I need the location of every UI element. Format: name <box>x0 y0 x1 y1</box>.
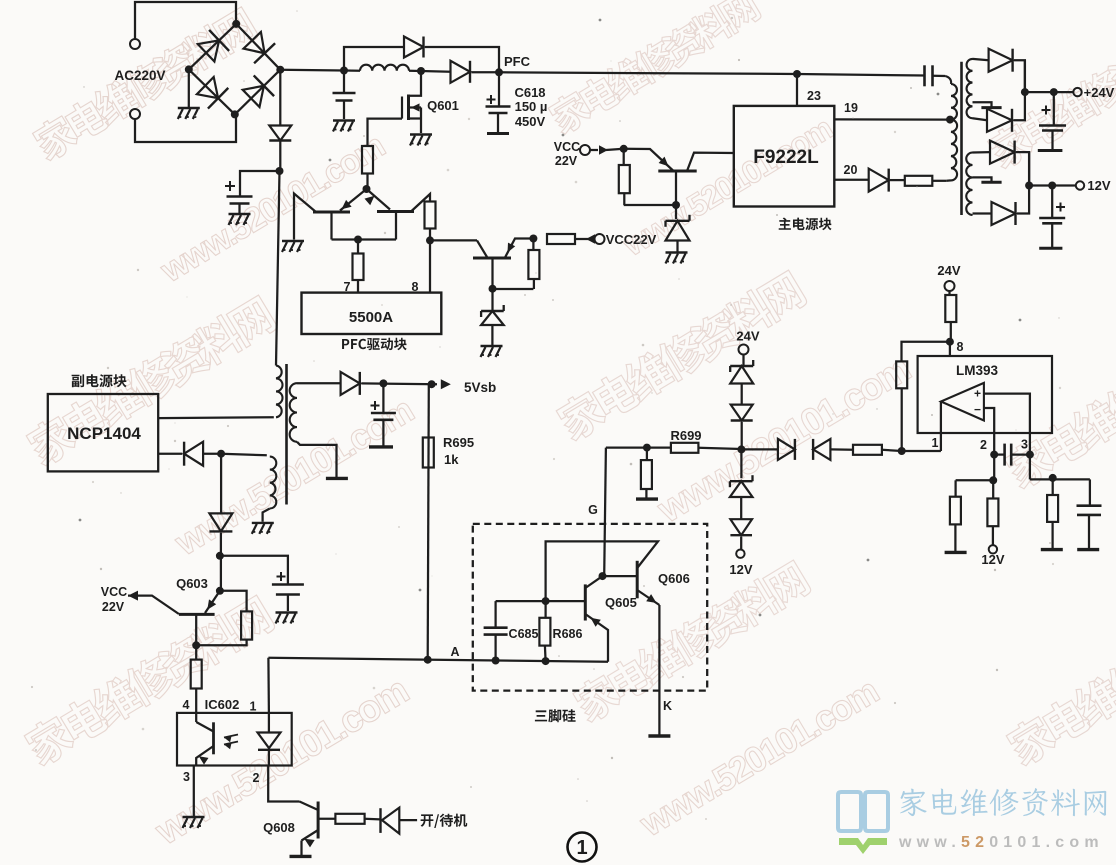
svg-text:www.520101.com: www.520101.com <box>167 389 419 563</box>
svg-text:Q601: Q601 <box>427 98 459 113</box>
svg-text:Q608: Q608 <box>263 820 295 835</box>
svg-text:1: 1 <box>250 700 257 714</box>
svg-text:4: 4 <box>183 698 190 712</box>
svg-text:12V: 12V <box>1087 178 1110 193</box>
svg-text:5500A: 5500A <box>349 309 393 326</box>
svg-text:12V: 12V <box>981 552 1004 567</box>
svg-text:+: + <box>974 387 981 401</box>
svg-text:3: 3 <box>1021 438 1028 452</box>
svg-text:8: 8 <box>957 340 964 354</box>
svg-text:G: G <box>588 503 598 517</box>
svg-text:VCC: VCC <box>101 585 127 599</box>
svg-text:www.520101.com: www.520101.com <box>154 127 391 290</box>
svg-text:12V: 12V <box>729 562 752 577</box>
svg-text:19: 19 <box>844 101 858 115</box>
svg-text:7: 7 <box>344 280 351 294</box>
svg-text:Q605: Q605 <box>605 595 637 610</box>
svg-text:1k: 1k <box>444 452 459 467</box>
svg-text:LM393: LM393 <box>956 363 999 378</box>
svg-text:1: 1 <box>576 837 587 859</box>
svg-text:K: K <box>663 699 672 713</box>
svg-text:A: A <box>450 645 459 659</box>
svg-text:3: 3 <box>183 770 190 784</box>
svg-text:22V: 22V <box>555 154 578 168</box>
svg-text:5Vsb: 5Vsb <box>464 380 496 395</box>
svg-text:24V: 24V <box>937 263 960 278</box>
svg-text:C618: C618 <box>514 85 545 100</box>
svg-text:22V: 22V <box>102 600 125 614</box>
svg-text:F9222L: F9222L <box>753 147 819 168</box>
svg-text:23: 23 <box>807 89 821 103</box>
svg-text:24V: 24V <box>736 329 759 344</box>
svg-text:−: − <box>974 403 981 417</box>
svg-text:NCP1404: NCP1404 <box>67 424 141 443</box>
svg-text:1: 1 <box>932 436 939 450</box>
svg-text:2: 2 <box>980 438 987 452</box>
svg-text:8: 8 <box>412 280 419 294</box>
svg-text:www.520101.com: www.520101.com <box>632 670 884 844</box>
svg-text:VCC: VCC <box>554 140 580 154</box>
svg-text:AC220V: AC220V <box>114 68 165 83</box>
svg-text:IC602: IC602 <box>205 697 240 712</box>
svg-text:150 µ: 150 µ <box>515 99 548 114</box>
svg-text:R699: R699 <box>670 428 701 443</box>
svg-text:VCC22V: VCC22V <box>606 232 657 247</box>
svg-text:C685: C685 <box>509 627 539 641</box>
svg-text:R686: R686 <box>553 627 583 641</box>
svg-text:Q606: Q606 <box>658 571 690 586</box>
svg-text:2: 2 <box>253 771 260 785</box>
svg-text:20: 20 <box>844 163 858 177</box>
svg-text:PFC: PFC <box>504 54 531 69</box>
svg-text:Q603: Q603 <box>176 576 208 591</box>
svg-text:450V: 450V <box>515 114 546 129</box>
svg-text:R695: R695 <box>443 435 474 450</box>
svg-text:+24V: +24V <box>1084 85 1115 100</box>
svg-text:www.520101.com: www.520101.com <box>898 834 1104 851</box>
